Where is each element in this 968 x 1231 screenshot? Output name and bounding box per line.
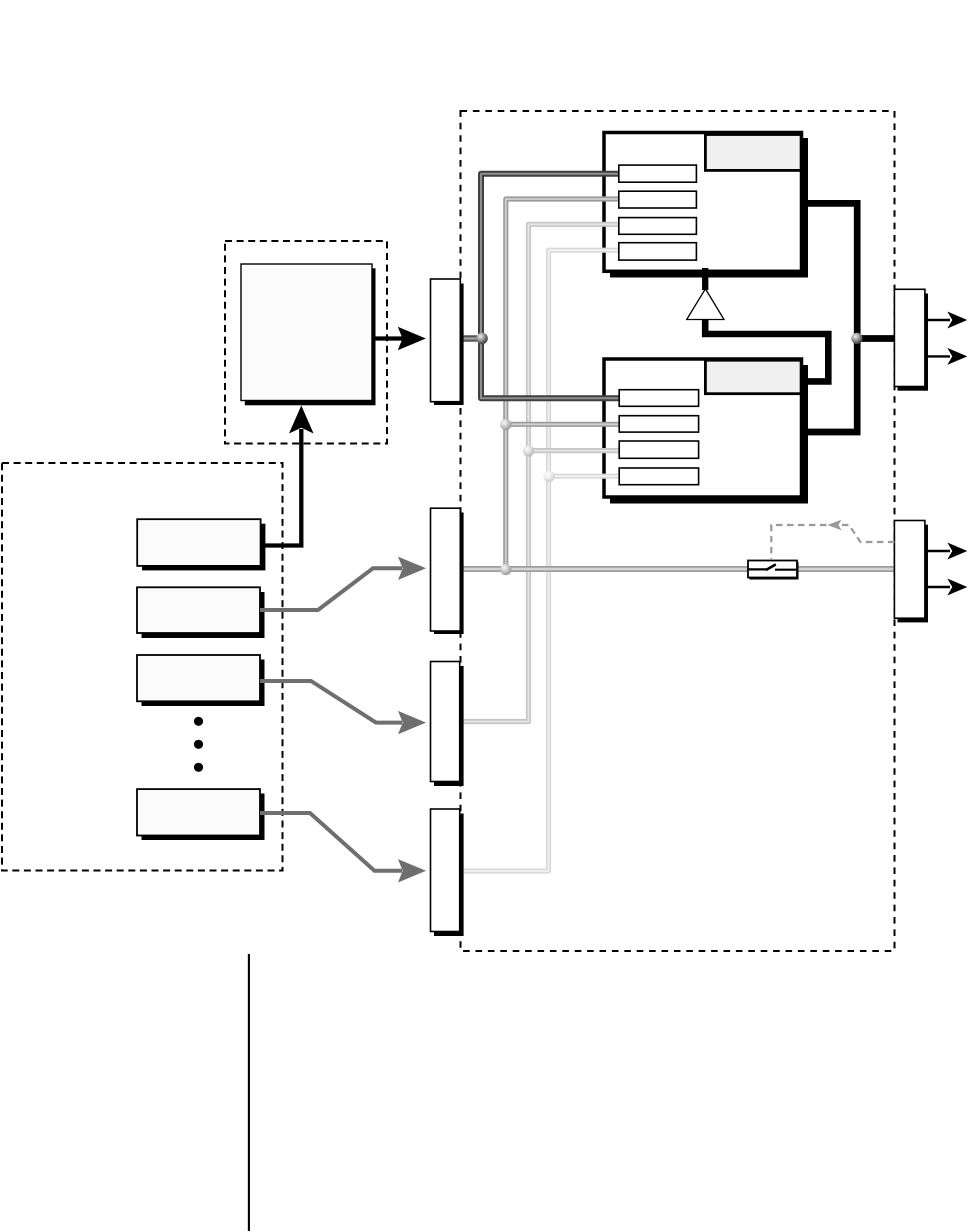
thick wire: node B to output register [857, 335, 894, 342]
wire W2 branch into U2 [506, 422, 620, 427]
buffer triangle [687, 289, 724, 320]
block U1 body [604, 133, 802, 272]
output arrow 1b [925, 348, 967, 365]
register box R1 shadow [142, 524, 265, 571]
register box Rn shadow [142, 794, 265, 841]
wire W4 (lightest gray) [460, 250, 620, 871]
U1 field box 1 [619, 165, 697, 182]
decoder square body [241, 264, 372, 401]
register box Rn body [137, 789, 260, 835]
block U2 shadow [610, 365, 808, 504]
wire R1 to decoder [261, 429, 302, 546]
thick wire: buffer to U2 enable [705, 319, 828, 381]
node ball W3/U2 junction [523, 445, 534, 456]
register box R3 shadow [142, 660, 265, 707]
output arrow 2a [925, 543, 967, 560]
wire W4 branch into U2 [549, 474, 620, 479]
ellipsis dot 2 [194, 740, 203, 749]
arrow R3 to latch C [260, 681, 426, 734]
block U1 corner sub-box [705, 135, 801, 171]
U2 field box 2 [619, 416, 698, 432]
block U2 body [604, 359, 802, 497]
node ball W4/U2 junction [543, 471, 554, 482]
node ball B on thick wire [851, 333, 862, 344]
U1 field box 2 [619, 191, 697, 208]
thick wire: U1 bottom to buffer [702, 268, 708, 290]
dashed enclosure: register bank unit [2, 463, 283, 871]
output arrow 1a [925, 312, 967, 329]
register box R1 body [137, 519, 260, 566]
latch C shadow [434, 666, 464, 786]
latch A body [431, 279, 461, 402]
callout leader line [248, 954, 250, 1231]
register box R3 body [137, 655, 260, 701]
switch SW1 body [748, 561, 797, 578]
wire W3 (light gray) [460, 224, 620, 721]
output register 2 shadow [898, 525, 929, 623]
block U2 corner sub-box [705, 360, 801, 394]
wire W1 (dark gray) [481, 174, 620, 398]
arrow decoder to latch A [374, 327, 426, 350]
output register 1 body [894, 289, 925, 386]
wire: horizontal bus to switch [460, 566, 894, 572]
block U1 shadow [610, 138, 808, 278]
dashed enclosure: datapath unit [461, 111, 895, 951]
latch B shadow [434, 513, 464, 635]
dashed feedback wire to switch [771, 520, 894, 560]
U2 field box 3 [619, 441, 698, 458]
switch SW1 shadow [750, 562, 799, 580]
ellipsis dot 1 [194, 717, 203, 726]
ellipsis dot 3 [194, 763, 203, 772]
dashed enclosure: decoder unit [225, 241, 387, 444]
arrow R2 to latch B [260, 557, 426, 610]
node ball W2/U2 junction [500, 419, 511, 430]
thick wire: U1 output to node B [801, 203, 857, 432]
register box R2 body [137, 587, 260, 633]
output register 1 shadow [898, 294, 929, 391]
register box R2 shadow [142, 592, 265, 638]
arrowhead into decoder bottom [289, 406, 314, 434]
node ball on latch A output [476, 333, 488, 345]
node ball W2/bus junction [500, 564, 511, 575]
output arrow 2b [925, 579, 967, 596]
wire W2 (medium gray) [506, 199, 620, 569]
latch D body [431, 809, 460, 932]
U1 field box 3 [619, 218, 697, 235]
wire W3 branch into U2 [529, 448, 620, 453]
U2 field box 4 [619, 468, 698, 485]
switch SW1 contacts [748, 564, 797, 570]
latch B body [431, 508, 461, 631]
U1 field box 4 [619, 243, 697, 260]
wire: latch A output stub [460, 335, 482, 342]
output register 2 body [894, 521, 925, 619]
arrow Rn to latch D [260, 813, 426, 883]
latch C body [431, 662, 460, 782]
latch A shadow [434, 284, 464, 406]
U2 field box 1 [619, 390, 698, 407]
latch D shadow [434, 814, 464, 937]
decoder square shadow [245, 268, 376, 405]
